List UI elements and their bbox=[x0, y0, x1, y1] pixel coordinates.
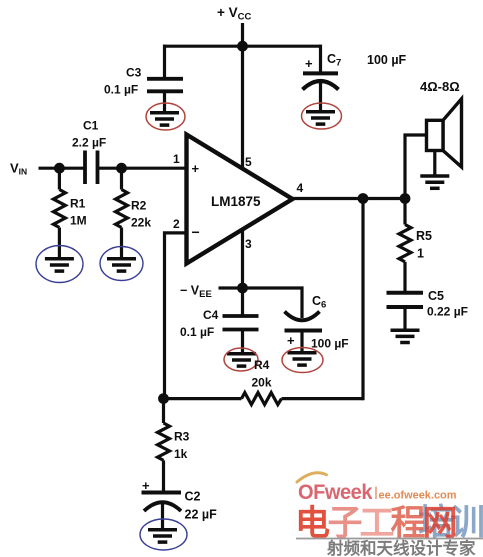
svg-text:LM1875: LM1875 bbox=[211, 194, 261, 209]
wire C5 to ground bbox=[403, 307, 406, 330]
wire input left bbox=[39, 167, 85, 170]
svg-text:22 µF: 22 µF bbox=[185, 508, 218, 522]
svg-text:C5: C5 bbox=[428, 289, 444, 303]
node VEE junction bbox=[237, 283, 248, 294]
ground C4 bbox=[227, 354, 256, 366]
svg-text:OFweek: OFweek bbox=[298, 481, 373, 504]
wire C6 to ground bbox=[300, 331, 303, 353]
svg-text:5: 5 bbox=[245, 155, 252, 169]
svg-text:3: 3 bbox=[245, 237, 252, 251]
ground C6 bbox=[288, 353, 317, 365]
svg-text:1k: 1k bbox=[174, 447, 188, 461]
capacitor C2 bbox=[142, 493, 182, 512]
speaker LS1 bbox=[427, 99, 462, 167]
watermark divider bbox=[375, 487, 377, 500]
annotation red circle C6 ground bbox=[282, 348, 323, 373]
svg-text:R5: R5 bbox=[416, 229, 432, 243]
wire VCC rail bbox=[163, 45, 321, 48]
annotation red circle C4 ground bbox=[224, 348, 258, 371]
svg-text:C6: C6 bbox=[312, 294, 326, 311]
resistor R1 bbox=[53, 168, 65, 258]
annotation blue circle C2 ground bbox=[140, 519, 187, 550]
svg-text:网: 网 bbox=[423, 504, 458, 543]
svg-text:100 µF: 100 µF bbox=[311, 337, 349, 351]
capacitor C1 bbox=[85, 151, 98, 185]
resistor R4 bbox=[242, 393, 282, 405]
ground speaker bbox=[420, 176, 449, 188]
resistor R5 bbox=[399, 199, 411, 294]
wire C4 to ground bbox=[241, 330, 244, 354]
annotation blue circle R1 ground bbox=[36, 246, 83, 283]
wire feedback bottom right bbox=[282, 397, 364, 400]
wire C7 branch bbox=[319, 45, 322, 74]
watermark rule bbox=[296, 538, 483, 540]
svg-text:工: 工 bbox=[360, 504, 395, 543]
svg-text:C1: C1 bbox=[83, 119, 99, 133]
svg-text:1M: 1M bbox=[70, 214, 87, 228]
ground R1 bbox=[45, 259, 74, 271]
svg-text:VIN: VIN bbox=[10, 161, 27, 177]
ground C3 bbox=[150, 113, 179, 125]
svg-text:+: + bbox=[305, 56, 313, 71]
capacitor C3 bbox=[147, 79, 183, 92]
svg-text:子: 子 bbox=[328, 504, 363, 543]
svg-text:C4: C4 bbox=[203, 308, 219, 322]
svg-text:0.1 µF: 0.1 µF bbox=[104, 83, 138, 97]
svg-text:2: 2 bbox=[173, 217, 180, 231]
svg-text:ee.ofweek.com: ee.ofweek.com bbox=[379, 490, 457, 502]
svg-text:C2: C2 bbox=[185, 490, 201, 504]
ground R2 bbox=[107, 259, 136, 271]
svg-text:C7: C7 bbox=[327, 52, 341, 69]
svg-text:+ VCC: + VCC bbox=[217, 5, 252, 23]
svg-text:R3: R3 bbox=[174, 430, 190, 444]
wire feedback bottom left bbox=[164, 397, 242, 400]
svg-text:R1: R1 bbox=[70, 197, 86, 211]
ground C5 bbox=[391, 330, 420, 342]
node C1-R2 junction bbox=[116, 163, 127, 174]
wire C3 branch bbox=[163, 45, 166, 79]
wire C2 to ground bbox=[161, 504, 164, 529]
annotation blue circle R2 ground bbox=[100, 247, 143, 281]
wire speaker bbox=[405, 135, 427, 199]
ground C2 bbox=[148, 530, 177, 542]
svg-text:20k: 20k bbox=[252, 376, 272, 390]
svg-text:100 µF: 100 µF bbox=[367, 53, 407, 67]
resistor R2 bbox=[116, 168, 128, 258]
ground C7 bbox=[306, 112, 335, 124]
resistor R3 bbox=[158, 399, 170, 493]
node output junction bbox=[400, 193, 411, 204]
annotation red circle C7 ground bbox=[302, 103, 342, 129]
watermark OFweek swoosh bbox=[297, 473, 327, 482]
svg-text:4Ω-8Ω: 4Ω-8Ω bbox=[420, 79, 460, 94]
node input junction bbox=[54, 163, 65, 174]
svg-text:4: 4 bbox=[297, 181, 304, 195]
node feedback junction bbox=[358, 193, 369, 204]
annotation red circle C3 ground bbox=[146, 103, 185, 130]
svg-text:0.1 µF: 0.1 µF bbox=[180, 325, 214, 339]
svg-text:1: 1 bbox=[417, 247, 424, 261]
wire C3 to ground bbox=[163, 91, 166, 112]
svg-text:R4: R4 bbox=[254, 358, 270, 372]
wire speaker to ground bbox=[433, 151, 436, 176]
svg-text:− VEE: − VEE bbox=[180, 284, 212, 301]
svg-text:2.2 µF: 2.2 µF bbox=[72, 136, 106, 150]
wire pin 5 bbox=[241, 46, 244, 167]
op-amp U1 LM1875 bbox=[187, 135, 293, 264]
node R3 junction bbox=[158, 393, 169, 404]
capacitor C7 bbox=[303, 73, 339, 89]
capacitor C6 bbox=[285, 312, 323, 331]
node VCC junction bbox=[237, 41, 248, 52]
wire VCC stub bbox=[241, 23, 244, 47]
wire VEE rail bbox=[219, 288, 303, 318]
capacitor C4 bbox=[223, 316, 259, 330]
svg-text:22k: 22k bbox=[131, 216, 151, 230]
svg-text:+: + bbox=[192, 161, 200, 176]
svg-text:−: − bbox=[192, 224, 200, 240]
capacitor C5 bbox=[387, 293, 424, 307]
svg-text:C3: C3 bbox=[126, 66, 142, 80]
wire output pin 4 bbox=[293, 197, 407, 200]
svg-text:1: 1 bbox=[173, 152, 180, 166]
svg-text:电: 电 bbox=[295, 504, 330, 543]
wire C7 to ground bbox=[319, 83, 322, 111]
svg-text:程: 程 bbox=[391, 504, 426, 543]
svg-text:射频和天线设计专家: 射频和天线设计专家 bbox=[326, 538, 476, 557]
wire input right bbox=[98, 167, 187, 170]
wire pin 2 bbox=[165, 233, 187, 399]
svg-text:+: + bbox=[287, 333, 295, 348]
wire pin 3 bbox=[241, 231, 244, 317]
wire feedback vertical bbox=[361, 199, 364, 401]
svg-text:R2: R2 bbox=[131, 199, 147, 213]
svg-text:0.22 µF: 0.22 µF bbox=[427, 305, 468, 319]
